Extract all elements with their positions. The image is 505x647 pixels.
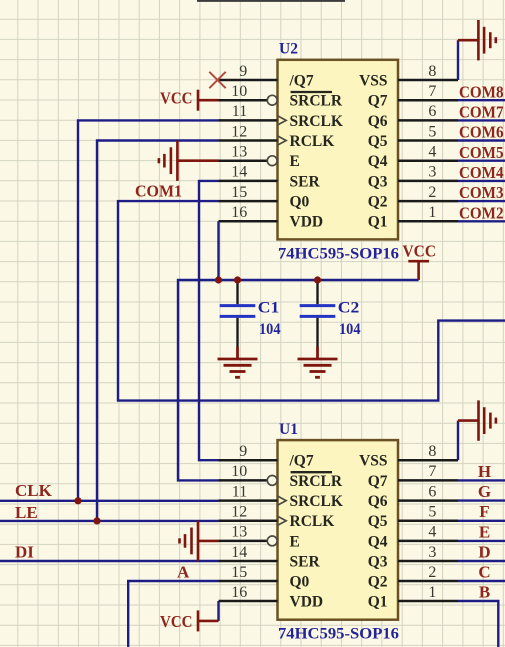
inversion bubble pin 10 (U1) bbox=[267, 476, 277, 486]
svg-text:U2: U2 bbox=[279, 41, 298, 58]
svg-text:Q3: Q3 bbox=[368, 173, 388, 190]
pin 15 stub (U1.Q0) bbox=[219, 580, 278, 583]
wire U2.SER to U1./Q7 cascade bbox=[199, 181, 219, 460]
pin 4 stub (U2.Q4) bbox=[398, 159, 458, 162]
svg-text:VCC: VCC bbox=[160, 88, 193, 107]
overbar SRCLR (U1) bbox=[291, 471, 332, 473]
svg-text:LE: LE bbox=[15, 503, 38, 522]
capacitor C2 bbox=[316, 280, 318, 304]
ground (power bars) at U1.VSS bbox=[458, 400, 496, 440]
svg-text:VCC: VCC bbox=[403, 241, 437, 260]
svg-text:5: 5 bbox=[428, 504, 436, 521]
svg-text:COM5: COM5 bbox=[459, 143, 504, 162]
svg-text:B: B bbox=[479, 582, 490, 601]
wire COM7 bbox=[458, 119, 505, 121]
pin 4 stub (U1.Q4) bbox=[398, 540, 458, 543]
svg-text:E: E bbox=[290, 153, 300, 170]
svg-text:12: 12 bbox=[231, 504, 247, 521]
pin 10 stub (U2.SRCLR) bbox=[219, 99, 268, 102]
capacitor C1 bbox=[236, 280, 238, 304]
svg-text:E: E bbox=[290, 533, 300, 550]
svg-text:3: 3 bbox=[428, 164, 436, 181]
wire net F bbox=[458, 520, 505, 522]
svg-text:Q7: Q7 bbox=[368, 93, 388, 110]
pin 14 stub (U1.SER) bbox=[219, 560, 278, 563]
svg-text:DI: DI bbox=[15, 543, 34, 562]
svg-text:Q1: Q1 bbox=[368, 214, 388, 231]
wire COM3 bbox=[458, 200, 505, 202]
pin 2 stub (U1.Q2) bbox=[398, 580, 458, 583]
svg-text:Q5: Q5 bbox=[368, 513, 388, 530]
junction dot CLK bbox=[74, 497, 81, 504]
wire U2.VDD down to VCC rail bbox=[217, 221, 219, 280]
svg-text:SER: SER bbox=[290, 173, 321, 190]
inversion bubble pin 13 (U1) bbox=[267, 536, 277, 546]
pin 10 stub (U1.SRCLR) bbox=[219, 479, 268, 482]
svg-text:9: 9 bbox=[239, 63, 247, 80]
svg-text:COM3: COM3 bbox=[459, 183, 504, 202]
svg-text:SRCLK: SRCLK bbox=[290, 493, 343, 510]
earth ground under C1 bbox=[218, 347, 258, 377]
svg-text:COM2: COM2 bbox=[459, 203, 504, 222]
svg-text:Q1: Q1 bbox=[368, 593, 388, 610]
svg-text:104: 104 bbox=[339, 321, 361, 338]
svg-text:CLK: CLK bbox=[15, 481, 53, 500]
junction dot LE bbox=[93, 517, 100, 524]
VCC power port (rail) bbox=[408, 261, 429, 280]
clock wedge pin 11 (U1) bbox=[278, 496, 287, 505]
svg-text:C2: C2 bbox=[338, 300, 360, 317]
pin 9 stub (U1./Q7) bbox=[219, 459, 278, 462]
svg-text:D: D bbox=[478, 542, 490, 561]
wire net B from U1.Q1 bbox=[458, 601, 498, 647]
svg-text:74HC595-SOP16: 74HC595-SOP16 bbox=[278, 245, 399, 262]
svg-text:H: H bbox=[478, 462, 491, 481]
svg-text:11: 11 bbox=[232, 483, 247, 500]
svg-text:13: 13 bbox=[231, 144, 247, 161]
pin 1 stub (U2.Q1) bbox=[398, 220, 458, 223]
svg-text:12: 12 bbox=[231, 123, 247, 140]
svg-text:COM8: COM8 bbox=[459, 82, 504, 101]
wire U2.SRCLK to CLK net bbox=[78, 120, 219, 500]
svg-text:A: A bbox=[177, 562, 190, 581]
svg-text:1: 1 bbox=[428, 584, 436, 601]
ground (power bars) at U2.E bbox=[159, 141, 219, 181]
wire COM5 bbox=[458, 159, 505, 161]
earth ground under C2 bbox=[298, 347, 338, 377]
svg-text:10: 10 bbox=[231, 463, 247, 480]
wire net G bbox=[458, 499, 505, 501]
inversion bubble pin 10 (U2) bbox=[267, 95, 277, 105]
svg-text:COM7: COM7 bbox=[459, 103, 504, 122]
wire COM2 bbox=[458, 220, 505, 222]
junction dot C1/VCC rail bbox=[234, 276, 241, 283]
svg-text:VSS: VSS bbox=[359, 72, 387, 89]
svg-text:Q7: Q7 bbox=[368, 473, 388, 490]
svg-text:SRCLK: SRCLK bbox=[290, 113, 343, 130]
svg-text:74HC595-SOP16: 74HC595-SOP16 bbox=[278, 626, 399, 643]
wire net D bbox=[458, 560, 505, 562]
svg-text:8: 8 bbox=[428, 443, 436, 460]
svg-text:11: 11 bbox=[232, 103, 247, 120]
pin 16 stub (U1.VDD) bbox=[219, 600, 278, 603]
svg-text:SRCLR: SRCLR bbox=[290, 473, 343, 490]
wire DI to U1.SER bbox=[0, 560, 219, 562]
svg-text:C: C bbox=[478, 562, 490, 581]
cropped wire fragment at top edge bbox=[197, 0, 345, 2]
svg-text:14: 14 bbox=[231, 544, 247, 561]
pin 7 stub (U1.Q7) bbox=[398, 479, 458, 482]
pin 7 stub (U2.Q7) bbox=[398, 99, 458, 102]
svg-text:Q2: Q2 bbox=[368, 194, 388, 211]
svg-text:13: 13 bbox=[231, 524, 247, 541]
wire U2.RCLK to LE net bbox=[97, 141, 219, 521]
wire net E bbox=[458, 540, 505, 542]
svg-text:1: 1 bbox=[428, 204, 436, 221]
svg-text:10: 10 bbox=[231, 83, 247, 100]
svg-text:Q6: Q6 bbox=[368, 493, 388, 510]
svg-text:E: E bbox=[479, 522, 490, 541]
pin 11 stub (U2.SRCLK) bbox=[219, 119, 278, 122]
IC U1 74HC595 body bbox=[278, 440, 399, 620]
pin 14 stub (U2.SER) bbox=[219, 180, 278, 183]
svg-text:7: 7 bbox=[428, 463, 436, 480]
svg-text:16: 16 bbox=[231, 204, 247, 221]
svg-text:Q3: Q3 bbox=[368, 553, 388, 570]
svg-text:U1: U1 bbox=[279, 421, 298, 438]
pin 6 stub (U1.Q6) bbox=[398, 499, 458, 502]
svg-text:5: 5 bbox=[428, 123, 436, 140]
pin 16 stub (U2.VDD) bbox=[219, 220, 278, 223]
svg-text:4: 4 bbox=[428, 524, 436, 541]
wire LE to U1.RCLK bbox=[0, 520, 219, 522]
svg-text:6: 6 bbox=[428, 483, 436, 500]
svg-text:VCC: VCC bbox=[160, 612, 193, 631]
junction dot C2/VCC rail bbox=[314, 276, 321, 283]
pin 13 stub (U1.E) bbox=[219, 540, 268, 543]
wire U2.VSS up to ground bbox=[457, 40, 459, 80]
IC U2 74HC595 body bbox=[278, 60, 399, 240]
overbar SRCLR (U2) bbox=[291, 91, 332, 93]
svg-text:7: 7 bbox=[428, 83, 436, 100]
clock wedge pin 11 (U2) bbox=[278, 116, 287, 125]
VCC power symbol at U1.VDD bbox=[198, 610, 219, 631]
wire U1.VDD down to VCC bbox=[217, 601, 219, 621]
wire COM4 bbox=[458, 180, 505, 182]
svg-text:COM4: COM4 bbox=[459, 163, 504, 182]
wire net H bbox=[458, 479, 505, 481]
svg-text:Q5: Q5 bbox=[368, 133, 388, 150]
wire COM6 bbox=[458, 139, 505, 141]
clock wedge pin 12 (U2) bbox=[278, 136, 287, 145]
pin 8 stub (U1.VSS) bbox=[398, 459, 458, 462]
svg-text:Q0: Q0 bbox=[290, 573, 310, 590]
svg-text:15: 15 bbox=[231, 564, 247, 581]
clock wedge pin 12 (U1) bbox=[278, 516, 287, 525]
svg-text:RCLK: RCLK bbox=[290, 133, 335, 150]
pin 6 stub (U2.Q6) bbox=[398, 119, 458, 122]
pin 5 stub (U2.Q5) bbox=[398, 139, 458, 142]
svg-text:Q4: Q4 bbox=[368, 153, 388, 170]
wire net C bbox=[458, 580, 505, 582]
pin 12 stub (U2.RCLK) bbox=[219, 139, 278, 142]
pin 15 stub (U2.Q0) bbox=[219, 200, 278, 203]
ground (power bars) at U1.E bbox=[180, 521, 219, 561]
svg-text:16: 16 bbox=[231, 584, 247, 601]
svg-text:VDD: VDD bbox=[290, 214, 324, 231]
pin 3 stub (U1.Q3) bbox=[398, 560, 458, 563]
svg-text:VSS: VSS bbox=[359, 453, 387, 470]
svg-text:4: 4 bbox=[428, 144, 436, 161]
svg-text:RCLK: RCLK bbox=[290, 513, 335, 530]
pin 8 stub (U2.VSS) bbox=[398, 79, 458, 82]
svg-text:/Q7: /Q7 bbox=[289, 453, 314, 470]
junction dot U2.VDD/VCC rail bbox=[215, 276, 222, 283]
wire CLK to U1.SRCLK bbox=[0, 500, 219, 502]
VCC power symbol at U2.SRCLR bbox=[198, 90, 219, 111]
no-connect X on U2 pin 9 bbox=[209, 72, 225, 88]
svg-text:Q6: Q6 bbox=[368, 113, 388, 130]
svg-text:SRCLR: SRCLR bbox=[290, 93, 343, 110]
svg-text:COM6: COM6 bbox=[459, 123, 504, 142]
pin 2 stub (U2.Q2) bbox=[398, 200, 458, 203]
pin 11 stub (U1.SRCLK) bbox=[219, 499, 278, 502]
wire U1.VSS up to ground bbox=[457, 421, 459, 461]
ground (power bars) at U2.VSS bbox=[458, 20, 496, 60]
svg-text:/Q7: /Q7 bbox=[289, 72, 314, 89]
svg-text:3: 3 bbox=[428, 544, 436, 561]
svg-text:8: 8 bbox=[428, 63, 436, 80]
svg-text:Q4: Q4 bbox=[368, 533, 388, 550]
svg-text:COM1: COM1 bbox=[135, 181, 182, 200]
inversion bubble pin 13 (U2) bbox=[267, 156, 277, 166]
svg-text:15: 15 bbox=[231, 184, 247, 201]
wire COM1 net from U2.Q0 bbox=[118, 201, 505, 401]
svg-text:9: 9 bbox=[239, 443, 247, 460]
pin 13 stub (U2.E) bbox=[219, 159, 268, 162]
pin 1 stub (U1.Q1) bbox=[398, 600, 458, 603]
wire net A from U1.Q0 bbox=[128, 581, 218, 647]
svg-text:2: 2 bbox=[428, 564, 436, 581]
pin 9 stub (U2./Q7) bbox=[219, 79, 278, 82]
svg-text:G: G bbox=[478, 482, 491, 501]
svg-text:104: 104 bbox=[259, 321, 281, 338]
svg-text:14: 14 bbox=[231, 164, 247, 181]
svg-text:Q0: Q0 bbox=[290, 194, 310, 211]
wire COM8 bbox=[458, 99, 505, 101]
pin 3 stub (U2.Q3) bbox=[398, 180, 458, 183]
svg-text:C1: C1 bbox=[258, 300, 280, 317]
svg-text:6: 6 bbox=[428, 103, 436, 120]
svg-text:F: F bbox=[479, 502, 489, 521]
svg-text:VDD: VDD bbox=[290, 593, 324, 610]
pin 5 stub (U1.Q5) bbox=[398, 520, 458, 523]
svg-text:SER: SER bbox=[290, 553, 321, 570]
svg-text:2: 2 bbox=[428, 184, 436, 201]
svg-text:Q2: Q2 bbox=[368, 573, 388, 590]
VCC rail and branch to U1.SRCLR bbox=[178, 280, 419, 480]
pin 12 stub (U1.RCLK) bbox=[219, 520, 278, 523]
